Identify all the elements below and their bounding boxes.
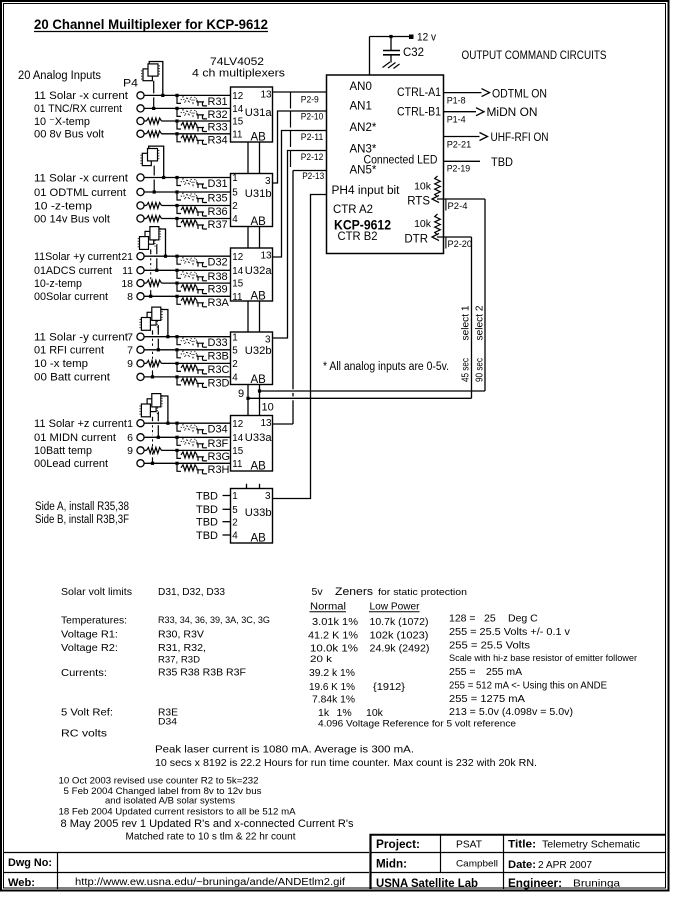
svg-text:10k: 10k — [414, 218, 432, 230]
svg-text:P2-10: P2-10 — [301, 112, 324, 123]
svg-text:TBD: TBD — [196, 504, 218, 516]
svg-text:D31, D32, D33: D31, D32, D33 — [158, 586, 225, 598]
svg-text:10 Oct 2003 revised use counte: 10 Oct 2003 revised use counter R2 to 5k… — [59, 776, 259, 787]
svg-text:R3B: R3B — [208, 350, 229, 362]
wire — [144, 348, 231, 351]
svg-text:45 sec: 45 sec — [461, 358, 472, 382]
svg-text:20 Channel Muiltiplexer for KC: 20 Channel Muiltiplexer for KCP-9612 — [34, 17, 268, 32]
svg-text:Dwg No:: Dwg No: — [8, 857, 52, 869]
resistor R3F — [177, 438, 229, 450]
svg-text:and isolated A/B solar systems: and isolated A/B solar systems — [105, 796, 235, 807]
svg-text:10: 10 — [262, 402, 274, 414]
wire — [144, 436, 231, 439]
wire AB select chain U31a-U31b — [248, 142, 260, 174]
svg-text:R36: R36 — [208, 206, 228, 218]
svg-text:Bruninga: Bruninga — [573, 878, 620, 890]
multiplexer U32a (74LV4052 half) — [231, 248, 273, 303]
svg-text:R37: R37 — [208, 219, 228, 231]
svg-text:Matched rate to 10 s tlm & 22: Matched rate to 10 s tlm & 22 hr count — [126, 831, 296, 843]
svg-text:11: 11 — [232, 292, 242, 303]
svg-text:U31b: U31b — [245, 188, 272, 200]
svg-text:R33, 34, 36, 39, 3A, 3C, 3G: R33, 34, 36, 39, 3A, 3C, 3G — [158, 615, 270, 626]
svg-text:PSAT: PSAT — [456, 839, 483, 851]
title block: Dwg No — [8, 857, 52, 869]
svg-text:PH4 input bit: PH4 input bit — [332, 185, 401, 197]
svg-text:255 = 512 mA <- Using this: 255 = 512 mA <- Using this on ANDE — [449, 680, 607, 692]
svg-text:R3A: R3A — [208, 297, 230, 309]
svg-text:00Lead current: 00Lead current — [34, 458, 108, 470]
input channel label: 00Solar current — [34, 291, 133, 303]
svg-text:21: 21 — [121, 251, 133, 263]
resistor R31 — [177, 96, 228, 108]
svg-text:10.0k 1%: 10.0k 1% — [310, 643, 358, 655]
wire — [144, 107, 231, 110]
wire U33b pin3 to PH4 input — [273, 195, 327, 499]
title block: Project PSAT — [376, 839, 483, 852]
svg-text:{1912}: {1912} — [373, 681, 406, 693]
input terminal — [137, 460, 144, 467]
wire — [144, 176, 231, 179]
svg-text:U31a: U31a — [245, 107, 273, 119]
resistor R3C — [177, 364, 230, 376]
svg-text:R3D: R3D — [208, 377, 230, 389]
input terminal — [137, 174, 144, 181]
title: 20 Channel Muiltiplexer for KCP-9612 — [34, 17, 268, 32]
svg-text:TBD: TBD — [491, 157, 513, 169]
svg-text:AB: AB — [251, 374, 267, 386]
table row: temperatures — [61, 613, 538, 629]
svg-text:7: 7 — [127, 345, 133, 357]
input terminal — [137, 267, 144, 274]
svg-text:D34: D34 — [208, 424, 228, 436]
svg-text:3.01k 1%: 3.01k 1% — [312, 616, 358, 628]
multiplexer U31a (74LV4052 half) — [231, 87, 273, 144]
svg-text:01ADCS current: 01ADCS current — [34, 265, 112, 277]
svg-text:Midn:: Midn: — [376, 859, 407, 871]
svg-text:20 k: 20 k — [310, 654, 332, 665]
resistor 10k DTR pull-up — [414, 214, 440, 235]
svg-text:5: 5 — [232, 188, 238, 199]
note: run time counter — [155, 757, 537, 769]
svg-text:4: 4 — [232, 214, 238, 225]
svg-text:ODTML ON: ODTML ON — [492, 89, 547, 101]
note: 18 Feb 2004 — [59, 807, 297, 818]
processor U1 KCP-9612 — [327, 75, 444, 254]
svg-text:R33: R33 — [208, 122, 228, 134]
svg-text:RTS: RTS — [407, 196, 430, 208]
svg-text:R35 R38 R3B R3F: R35 R38 R3B R3F — [158, 668, 246, 679]
ground — [383, 62, 400, 69]
svg-text:R39: R39 — [208, 284, 228, 296]
input terminal — [137, 447, 144, 454]
table row: D34 voltage reference — [158, 717, 516, 730]
svg-text:11Solar +y current: 11Solar +y current — [34, 251, 121, 263]
svg-text:1: 1 — [232, 491, 237, 502]
wire — [144, 360, 231, 366]
svg-text:U32b: U32b — [245, 345, 272, 357]
table row: voltage R2 — [61, 640, 530, 655]
wire stubs above U33b — [247, 484, 260, 489]
svg-text:2: 2 — [232, 201, 237, 212]
title block: Web URL — [8, 877, 345, 889]
wire — [144, 280, 231, 286]
wire RTS to P2-4 select 2 — [407, 195, 485, 391]
node TBD input — [196, 490, 231, 502]
svg-text:9: 9 — [238, 388, 244, 400]
resistor D32 — [177, 257, 228, 269]
title block: Title Telemetry Schematic — [508, 839, 640, 851]
input terminal — [137, 333, 144, 340]
wire — [144, 203, 231, 209]
svg-text:8: 8 — [127, 291, 133, 303]
svg-text:Date:: Date: — [508, 859, 536, 871]
table: solar volt limits — [61, 586, 225, 598]
input terminal — [137, 434, 144, 441]
svg-text:11: 11 — [122, 265, 133, 277]
svg-text:Scale with hi-z base resistor: Scale with hi-z base resistor of emitter… — [449, 653, 637, 664]
svg-text:MiDN ON: MiDN ON — [487, 107, 538, 119]
svg-text:R30, R3V: R30, R3V — [158, 629, 204, 641]
table: zener header — [312, 586, 468, 598]
wire CTRL-B1 to MiDN ON (P1-4) — [444, 107, 538, 125]
svg-text:10Batt temp: 10Batt temp — [34, 445, 92, 457]
input channel label: 10-z-temp — [34, 278, 133, 290]
wire U31b pin3 to AN1 (P2-10) — [273, 111, 327, 183]
svg-text:DTR: DTR — [404, 234, 428, 246]
svg-text:10 secs x 8192 is 22.2 Hours f: 10 secs x 8192 is 22.2 Hours for run tim… — [155, 757, 537, 769]
node TBD input — [196, 504, 231, 516]
table row: 19.6K — [309, 680, 607, 694]
input terminal — [137, 253, 144, 260]
wire — [144, 269, 231, 272]
title block: USNA Satellite Lab — [376, 878, 478, 890]
input channel label: 11 Solar +z current — [34, 418, 133, 430]
resistor R36 — [177, 206, 228, 218]
svg-text:USNA Satellite Lab: USNA Satellite Lab — [376, 878, 478, 890]
node TBD input — [196, 517, 231, 529]
svg-text:R38: R38 — [208, 271, 228, 283]
resistor R33 — [177, 122, 228, 134]
note: 5 Feb 2004 — [64, 786, 262, 807]
input channel label: 01 RFI current — [34, 345, 133, 357]
resistor R3B — [177, 350, 229, 362]
svg-text:P1-4: P1-4 — [447, 114, 466, 125]
svg-text:P2-11: P2-11 — [301, 132, 324, 143]
input terminal — [137, 360, 144, 367]
svg-text:R37, R3D: R37, R3D — [158, 655, 200, 666]
svg-text:10-z-temp: 10-z-temp — [34, 278, 82, 290]
svg-text:P2-20: P2-20 — [448, 239, 473, 250]
svg-text:U33a: U33a — [245, 432, 273, 444]
input terminal — [137, 202, 144, 209]
resistor R3H — [177, 464, 230, 476]
note: peak laser current — [155, 744, 414, 756]
wire CTRL-A1 to ODTML ON (P1-8) — [444, 89, 548, 107]
svg-text:AB: AB — [251, 533, 267, 545]
svg-text:Web:: Web: — [8, 877, 35, 889]
input channel label: 10 -x temp — [34, 358, 133, 370]
input terminal — [137, 215, 144, 222]
svg-text:Voltage R1:: Voltage R1: — [61, 629, 118, 641]
svg-text:5: 5 — [232, 345, 238, 356]
input channel label: 00 8v Bus volt — [34, 129, 104, 141]
node TBD input — [196, 530, 231, 542]
resistor R39 — [177, 284, 228, 296]
resistor D31 — [177, 178, 228, 190]
table row: currents — [61, 666, 522, 679]
label 20 Analog Inputs — [18, 70, 101, 82]
svg-text:10.7k (1072): 10.7k (1072) — [370, 616, 429, 628]
svg-text:P2-13: P2-13 — [302, 171, 324, 182]
svg-text:OUTPUT COMMAND CIRCUITS: OUTPUT COMMAND CIRCUITS — [462, 50, 607, 62]
input terminal — [137, 105, 144, 112]
wire U31a pin13 to AN0 (P2-9) — [273, 92, 327, 109]
multiplexer U33b (74LV4052 half) — [231, 489, 273, 545]
svg-text:Telemetry Schematic: Telemetry Schematic — [542, 839, 640, 851]
svg-text:74LV4052: 74LV4052 — [210, 56, 264, 68]
svg-text:9: 9 — [127, 358, 133, 370]
svg-text:10k: 10k — [414, 181, 432, 193]
table: Low Power column header — [369, 602, 420, 613]
label OUTPUT COMMAND CIRCUITS — [462, 50, 607, 62]
wire U32a pin13 to AN2 (P2-11) — [273, 131, 327, 258]
wire select line to pin 9 — [248, 397, 472, 399]
resistor R3A — [177, 297, 230, 309]
svg-text:TBD: TBD — [196, 530, 218, 542]
input channel label: 11 Solar -x current — [34, 90, 128, 102]
input channel label: 01 MIDN current — [34, 432, 133, 444]
svg-text:R3H: R3H — [208, 464, 230, 476]
svg-text:TBD: TBD — [196, 517, 218, 529]
svg-text:Side A, install R35,38: Side A, install R35,38 — [35, 501, 129, 513]
input channel label: 00 Batt current — [34, 372, 110, 384]
svg-text:255 mA: 255 mA — [486, 666, 522, 678]
input terminal — [137, 117, 144, 124]
svg-text:11: 11 — [232, 129, 242, 140]
svg-text:9: 9 — [127, 445, 133, 457]
svg-text:11 Solar -x current: 11 Solar -x current — [34, 172, 128, 184]
input terminal — [137, 420, 144, 427]
input terminal — [137, 293, 144, 300]
svg-text:Title:: Title: — [508, 839, 536, 851]
wire — [144, 335, 231, 338]
svg-text:1: 1 — [232, 332, 237, 343]
input channel label: 10 ⁻X-temp — [34, 116, 90, 128]
svg-text:13: 13 — [261, 251, 273, 262]
multiplexer U32b (74LV4052 half) — [231, 332, 273, 386]
svg-text:Temperatures:: Temperatures: — [61, 615, 127, 627]
svg-text:3: 3 — [265, 491, 271, 502]
svg-text:213 = 5.0v (4.098v = 5.0v): 213 = 5.0v (4.098v = 5.0v) — [449, 706, 573, 718]
svg-text:255 = 25.5 Volts +/- 0.1: 255 = 25.5 Volts +/- 0.1 v — [449, 626, 571, 638]
input terminal — [137, 373, 144, 380]
table: Normal column header — [310, 602, 347, 613]
svg-text:2: 2 — [232, 359, 237, 370]
wire U32b pin3 to AN3 (P2-12) — [273, 151, 327, 339]
svg-text:24.9k (2492): 24.9k (2492) — [370, 643, 430, 655]
note: 10 Oct 2003 — [59, 776, 259, 787]
table row: 7.84k — [312, 693, 525, 706]
svg-text:2: 2 — [232, 517, 237, 528]
svg-text:00Solar current: 00Solar current — [34, 291, 108, 303]
solar cell symbol group 1 — [142, 62, 165, 111]
svg-text:Project:: Project: — [376, 839, 420, 851]
svg-text:R31: R31 — [208, 96, 228, 108]
svg-text:12 v: 12 v — [417, 32, 436, 44]
svg-text:AN1: AN1 — [350, 101, 372, 113]
table row: R37 R3D — [158, 653, 637, 666]
input channel label: 11Solar +y current — [34, 251, 133, 263]
svg-text:14: 14 — [232, 433, 243, 444]
wire U33a pin13 to AN5 (P2-13) — [273, 171, 327, 425]
svg-text:00 Batt current: 00 Batt current — [34, 372, 110, 384]
svg-text:CTR B2: CTR B2 — [338, 231, 378, 243]
wire — [144, 462, 231, 465]
svg-text:D33: D33 — [208, 337, 228, 349]
svg-text:CTRL-B1: CTRL-B1 — [397, 107, 441, 119]
svg-text:39.2 k 1%: 39.2 k 1% — [309, 667, 355, 679]
svg-text:8 May 2005 rev 1 Updated R': 8 May 2005 rev 1 Updated R's and x-conne… — [61, 818, 354, 830]
svg-text:D31: D31 — [208, 178, 228, 190]
input terminal — [137, 188, 144, 195]
svg-text:3: 3 — [265, 176, 271, 187]
svg-text:00 14v Bus volt: 00 14v Bus volt — [34, 213, 110, 225]
wire — [144, 94, 231, 97]
svg-text:18: 18 — [121, 278, 133, 290]
svg-text:2 APR 2007: 2 APR 2007 — [538, 859, 592, 871]
title block frame — [4, 834, 666, 889]
svg-text:http://www.ew.usna.edu/~brunin: http://www.ew.usna.edu/~bruninga/ande/AN… — [75, 877, 345, 888]
svg-text:01 TNC/RX current: 01 TNC/RX current — [34, 103, 122, 115]
svg-text:C32: C32 — [403, 47, 424, 59]
svg-text:12: 12 — [232, 252, 243, 263]
wire — [144, 422, 231, 425]
wire — [144, 447, 231, 453]
svg-text:AN2*: AN2* — [350, 122, 377, 134]
multiplexer U33a (74LV4052 half) — [231, 416, 273, 473]
svg-text:3: 3 — [265, 335, 271, 346]
wire — [144, 131, 231, 137]
svg-text:Campbell: Campbell — [456, 859, 498, 870]
svg-text:19.6 K 1%: 19.6 K 1% — [309, 681, 355, 693]
wire — [144, 216, 231, 222]
svg-text:11 Solar +z current: 11 Solar +z current — [34, 418, 127, 430]
svg-text:AB: AB — [251, 132, 267, 144]
svg-text:CTRL-A1: CTRL-A1 — [397, 87, 441, 99]
label 74LV4052 4 ch multiplexers — [192, 56, 286, 80]
input channel label: 00Lead current — [34, 458, 108, 470]
svg-text:90 sec: 90 sec — [475, 358, 486, 382]
wire — [144, 375, 231, 378]
svg-text:15: 15 — [232, 279, 243, 290]
label select 2 / 90 sec — [475, 305, 486, 382]
svg-text:P4: P4 — [123, 78, 138, 90]
svg-text:4: 4 — [232, 531, 238, 542]
svg-text:1%: 1% — [337, 707, 352, 719]
svg-text:255 = 1275 mA: 255 = 1275 mA — [449, 693, 525, 705]
svg-text:for static protection: for static protection — [378, 587, 467, 598]
svg-text:1: 1 — [127, 418, 133, 430]
svg-text:25: 25 — [484, 613, 496, 625]
svg-text:UHF-RFI ON: UHF-RFI ON — [491, 132, 549, 144]
input channel label: 10 -z-temp — [34, 200, 92, 212]
svg-text:15: 15 — [232, 117, 243, 128]
solar cell symbol group 2 — [141, 146, 165, 193]
svg-text:12: 12 — [232, 91, 243, 102]
input channel label: 01ADCS current — [34, 265, 133, 277]
table row: 5 volt ref — [61, 706, 573, 719]
svg-text:00 8v Bus volt: 00 8v Bus volt — [34, 129, 104, 141]
resistor R35 — [177, 193, 228, 205]
svg-text:Side B, install R3B,3F: Side B, install R3B,3F — [35, 514, 129, 526]
svg-text:P2-21: P2-21 — [447, 139, 472, 150]
input terminal — [137, 346, 144, 353]
svg-text:R3G: R3G — [208, 451, 231, 463]
capacitor C32 — [383, 37, 424, 63]
svg-text:10 ⁻X-temp: 10 ⁻X-temp — [34, 116, 90, 128]
note: Side A install R35,38 — [35, 501, 129, 513]
input channel label: 00 14v Bus volt — [34, 213, 110, 225]
svg-text:P1-8: P1-8 — [447, 95, 466, 106]
svg-text:10 -x temp: 10 -x temp — [34, 358, 88, 370]
input channel label: 10Batt temp — [34, 445, 133, 457]
wire AB select chain U32a-U32b — [248, 301, 260, 332]
resistor R3G — [177, 451, 230, 463]
svg-text:AB: AB — [251, 216, 267, 228]
resistor R34 — [177, 134, 228, 146]
input terminal — [137, 280, 144, 287]
svg-text:128 =: 128 = — [449, 613, 476, 625]
table row: voltage R1 — [61, 626, 571, 642]
svg-text:P2-19: P2-19 — [447, 164, 471, 175]
svg-text:41.2 K 1%: 41.2 K 1% — [308, 630, 358, 642]
resistor R3D — [177, 377, 230, 389]
svg-text:11: 11 — [232, 459, 242, 470]
svg-text:U33b: U33b — [245, 507, 272, 519]
svg-text:Deg C: Deg C — [508, 613, 538, 625]
svg-text:R3C: R3C — [208, 364, 230, 376]
resistor R37 — [177, 219, 228, 231]
svg-text:13: 13 — [261, 90, 273, 101]
svg-text:Normal: Normal — [310, 602, 346, 613]
svg-text:D32: D32 — [208, 257, 228, 269]
table row: RC volts — [61, 728, 107, 740]
svg-text:4: 4 — [232, 373, 238, 384]
resistor R32 — [177, 109, 228, 121]
svg-text:14: 14 — [232, 104, 243, 115]
svg-text:5 Volt Ref:: 5 Volt Ref: — [61, 707, 113, 719]
input channel label: 01 ODTML current — [34, 187, 126, 199]
svg-text:255 = 25.5 Volts: 255 = 25.5 Volts — [449, 640, 530, 652]
svg-text:AN0: AN0 — [350, 81, 372, 93]
svg-text:P2-9: P2-9 — [301, 94, 319, 105]
svg-text:Currents:: Currents: — [61, 667, 107, 679]
svg-text:01 RFI current: 01 RFI current — [34, 345, 104, 357]
svg-text:01 MIDN current: 01 MIDN current — [34, 432, 116, 444]
wire AB select chain U32b-U33a with pins 9 and 10 — [238, 385, 274, 416]
note: 8 May 2005 rev 1 — [61, 818, 354, 843]
svg-text:AB: AB — [251, 461, 267, 473]
svg-text:R3F: R3F — [208, 438, 229, 450]
svg-text:select 1: select 1 — [461, 305, 472, 340]
label select 1 / 45 sec — [461, 305, 472, 382]
input channel label: 11 Solar -y current — [34, 332, 133, 344]
wire — [144, 255, 231, 258]
resistor R38 — [177, 271, 228, 283]
svg-text:select 2: select 2 — [475, 305, 486, 340]
svg-text:18 Feb 2004 Updated current re: 18 Feb 2004 Updated current resistors to… — [59, 807, 297, 818]
svg-text:10k: 10k — [366, 707, 384, 719]
